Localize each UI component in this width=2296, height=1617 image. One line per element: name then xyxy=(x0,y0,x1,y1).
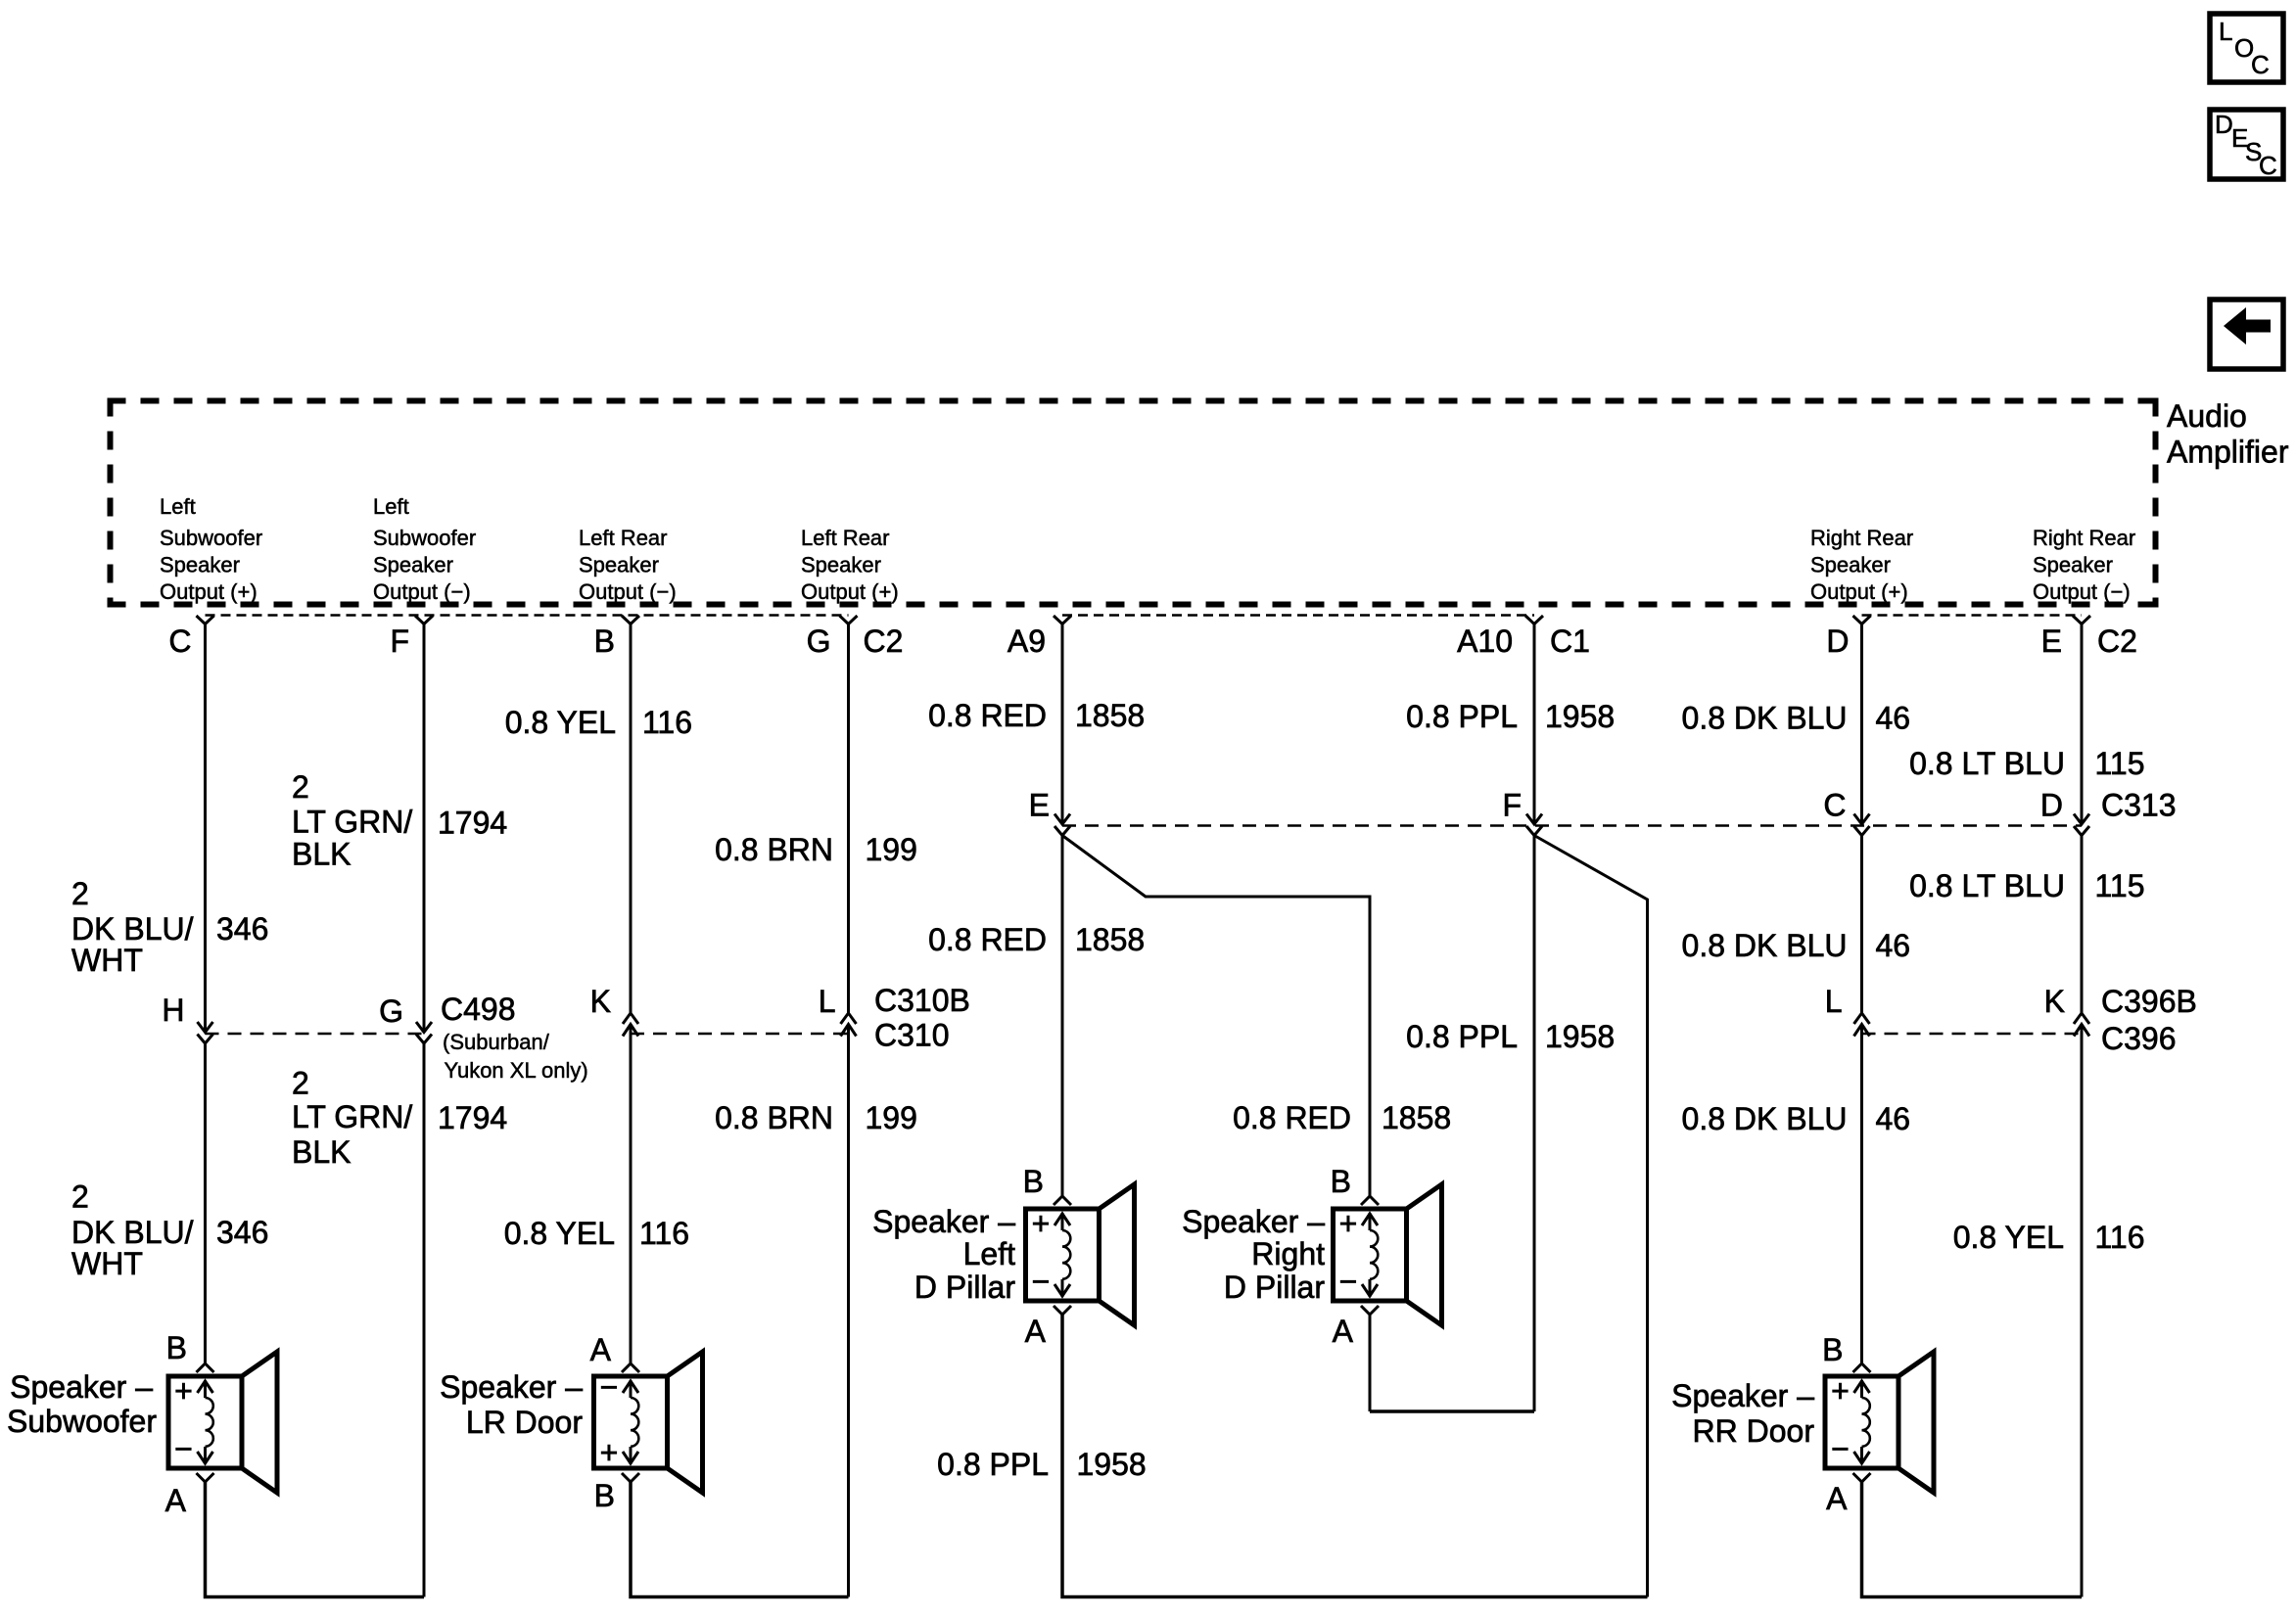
amp pin label: Right Rear Speaker Output (-) xyxy=(2033,526,2135,604)
wire: G down to bottom loop (2 LT GRN/BLK 1794) xyxy=(423,1043,426,1597)
connector C313 pin D crossing xyxy=(2040,788,2089,836)
amp pin label: Left Subwoofer Speaker Output (-) xyxy=(373,494,476,604)
svg-text:B: B xyxy=(1023,1164,1044,1199)
label Audio Amplifier xyxy=(2167,398,2289,470)
wire label 0.8 DK BLU 46 (upper) xyxy=(1682,701,1911,736)
svg-text:LT GRN/: LT GRN/ xyxy=(292,805,412,840)
wire label 0.8 BRN 199 (upper) xyxy=(715,832,917,867)
svg-text:B: B xyxy=(594,1478,615,1513)
svg-text:Speaker –: Speaker – xyxy=(10,1369,153,1405)
svg-text:LT GRN/: LT GRN/ xyxy=(292,1099,412,1134)
svg-text:199: 199 xyxy=(866,832,917,867)
svg-text:0.8 YEL: 0.8 YEL xyxy=(504,1216,615,1251)
svg-text:Left: Left xyxy=(160,494,196,519)
svg-text:G: G xyxy=(807,624,831,659)
svg-text:Speaker –: Speaker – xyxy=(872,1204,1015,1239)
svg-text:WHT: WHT xyxy=(71,943,143,978)
svg-text:A9: A9 xyxy=(1007,624,1046,659)
svg-text:DK BLU/: DK BLU/ xyxy=(71,911,194,947)
wire: L to RR door speaker B (0.8 DK BLU 46) xyxy=(1860,1025,1863,1364)
svg-text:Output (−): Output (−) xyxy=(2033,579,2131,604)
svg-text:C1: C1 xyxy=(1550,624,1590,659)
in-line connector C498 dashed line xyxy=(206,1033,425,1036)
svg-text:2: 2 xyxy=(292,769,309,805)
svg-text:199: 199 xyxy=(866,1100,917,1135)
amp pin A9 terminal fork xyxy=(1007,616,1071,659)
connector designator C310B / C310 xyxy=(874,983,970,1053)
wire label 0.8 YEL 116 (right lower) xyxy=(1953,1220,2145,1255)
wire label 0.8 YEL 116 (lower) xyxy=(504,1216,689,1251)
svg-text:Right: Right xyxy=(1251,1236,1325,1271)
svg-text:C310: C310 xyxy=(874,1018,950,1053)
wire: LR door speaker B down and across to amp G circuit xyxy=(631,1482,849,1597)
svg-text:+: + xyxy=(1339,1206,1358,1241)
svg-text:F: F xyxy=(1502,788,1522,823)
svg-text:B: B xyxy=(1331,1164,1351,1199)
speaker: LR Door xyxy=(440,1332,702,1513)
svg-text:E: E xyxy=(2041,624,2062,659)
wire: splice branch F diagonal to vertical runner (0.8 PPL 1958) xyxy=(1534,836,1648,1597)
svg-text:Output (+): Output (+) xyxy=(801,579,899,604)
wire: splice branch E to right D-pillar speaker diagonal xyxy=(1062,836,1370,1197)
wire: L down to bottom loop (0.8 BRN 199) xyxy=(847,1025,850,1597)
svg-text:0.8 DK BLU: 0.8 DK BLU xyxy=(1682,701,1848,736)
svg-text:−: − xyxy=(600,1369,619,1405)
wire label 0.8 LT BLU 115 (below C313) xyxy=(1909,868,2144,903)
svg-text:0.8 DK BLU: 0.8 DK BLU xyxy=(1682,1101,1848,1136)
wire: amp G to L (0.8 BRN 199) xyxy=(847,624,850,1014)
svg-text:Left Rear: Left Rear xyxy=(579,526,668,550)
wire label 2 LT GRN/BLK 1794 (upper) xyxy=(292,769,507,872)
wire: amp A10 to F (0.8 PPL 1958) xyxy=(1533,624,1536,825)
in-line connector C396 dashed line xyxy=(1862,1033,2083,1036)
amp connector C2 strip (pins C,F,B,G) xyxy=(206,614,849,617)
wire label 0.8 RED 1858 (right D-pillar branch) xyxy=(1233,1100,1451,1135)
wire: E to left D-pillar speaker (0.8 RED 1858) xyxy=(1061,836,1064,1197)
svg-text:Left: Left xyxy=(373,494,409,519)
connector C313 pin C crossing xyxy=(1823,788,1869,836)
svg-text:C: C xyxy=(1823,788,1846,823)
connector C396 pin L crossing xyxy=(1825,984,1870,1037)
svg-text:C396: C396 xyxy=(2101,1021,2177,1056)
svg-text:C2: C2 xyxy=(2097,624,2137,659)
svg-text:1958: 1958 xyxy=(1077,1447,1147,1482)
svg-text:BLK: BLK xyxy=(292,1134,351,1170)
svg-text:−: − xyxy=(174,1431,193,1466)
svg-text:F: F xyxy=(390,624,409,659)
svg-text:0.8 PPL: 0.8 PPL xyxy=(1406,1019,1518,1054)
svg-text:D Pillar: D Pillar xyxy=(1224,1270,1325,1305)
wire label 0.8 PPL 1958 (upper) xyxy=(1406,699,1615,734)
svg-text:Speaker: Speaker xyxy=(2033,553,2113,577)
amp pin G terminal fork xyxy=(807,616,858,659)
wire label 2 DK BLU/WHT 346 (lower) xyxy=(71,1179,268,1282)
svg-text:A: A xyxy=(165,1483,187,1518)
svg-text:L: L xyxy=(819,984,836,1019)
svg-text:L: L xyxy=(1825,984,1843,1019)
svg-text:0.8 LT BLU: 0.8 LT BLU xyxy=(1909,868,2065,903)
amp pin label: Left Rear Speaker Output (+) xyxy=(801,526,899,604)
svg-text:+: + xyxy=(1032,1206,1051,1241)
svg-text:0.8 RED: 0.8 RED xyxy=(1233,1100,1351,1135)
wire: amp D to C (0.8 DK BLU 46) xyxy=(1860,624,1863,825)
wire: D to K on right rear (-) (0.8 LT BLU 115) xyxy=(2081,836,2084,1014)
svg-text:(Suburban/: (Suburban/ xyxy=(443,1030,550,1054)
svg-text:Speaker: Speaker xyxy=(1810,553,1891,577)
amp pin label: Right Rear Speaker Output (+) xyxy=(1810,526,1913,604)
amp pin F terminal fork xyxy=(390,616,433,659)
svg-text:−: − xyxy=(1339,1264,1358,1299)
svg-text:−: − xyxy=(1831,1431,1850,1466)
svg-text:1858: 1858 xyxy=(1382,1100,1451,1135)
wire: amp B to K (0.8 YEL 116) xyxy=(630,624,633,1014)
wire: left D-pillar speaker A down and across to PPL runner xyxy=(1062,1315,1648,1597)
svg-text:2: 2 xyxy=(71,876,89,911)
amp connector C1 strip (pins A9,A10) xyxy=(1062,614,1534,617)
svg-text:115: 115 xyxy=(2095,868,2145,903)
wire label 0.8 RED 1858 (below C313) xyxy=(928,922,1145,957)
wire: subwoofer speaker A down and across to amp F circuit xyxy=(206,1482,425,1597)
svg-text:D: D xyxy=(1826,624,1849,659)
svg-text:D: D xyxy=(2040,788,2063,823)
svg-text:D Pillar: D Pillar xyxy=(914,1270,1015,1305)
amp pin E terminal fork xyxy=(2041,616,2090,659)
svg-text:B: B xyxy=(166,1330,187,1365)
amp pin C terminal fork xyxy=(168,616,213,659)
amp pin D terminal fork xyxy=(1826,616,1870,659)
audio amplifier U1 dashed outline xyxy=(108,398,2159,608)
svg-text:BLK: BLK xyxy=(292,837,351,872)
svg-text:RR Door: RR Door xyxy=(1693,1413,1815,1449)
amp pin B terminal fork xyxy=(594,616,639,659)
svg-text:Output (+): Output (+) xyxy=(1810,579,1908,604)
svg-text:+: + xyxy=(600,1435,619,1470)
svg-text:Left Rear: Left Rear xyxy=(801,526,890,550)
svg-text:0.8 PPL: 0.8 PPL xyxy=(937,1447,1049,1482)
wire: amp E to D (0.8 LT BLU 115) xyxy=(2081,624,2084,825)
svg-text:1858: 1858 xyxy=(1075,698,1145,733)
svg-text:D: D xyxy=(2215,110,2233,139)
connector C310 pin L crossing xyxy=(819,984,857,1037)
svg-text:46: 46 xyxy=(1876,701,1911,736)
svg-text:1958: 1958 xyxy=(1545,699,1615,734)
wire: amp C to H (2 DK BLU/WHT 346) xyxy=(204,624,207,1033)
wire label 0.8 PPL 1958 (left D-pillar return) xyxy=(937,1447,1147,1482)
speaker: Subwoofer xyxy=(7,1330,277,1518)
svg-text:L: L xyxy=(2219,17,2232,46)
svg-text:Subwoofer: Subwoofer xyxy=(373,526,476,550)
wire: H to subwoofer speaker B (2 DK BLU/WHT 346) xyxy=(204,1043,207,1363)
wire: amp A9 to E (0.8 RED 1858) xyxy=(1061,624,1064,825)
svg-text:116: 116 xyxy=(642,705,692,740)
LOC reference box xyxy=(2210,14,2283,82)
connector C310 pin K crossing xyxy=(590,984,638,1037)
svg-text:1958: 1958 xyxy=(1545,1019,1615,1054)
svg-text:2: 2 xyxy=(292,1066,309,1101)
svg-text:C: C xyxy=(168,624,191,659)
svg-text:C2: C2 xyxy=(864,624,904,659)
svg-text:C310B: C310B xyxy=(874,983,970,1018)
speaker: Right D Pillar xyxy=(1182,1164,1441,1349)
svg-text:A: A xyxy=(1333,1314,1354,1349)
wire: RR door speaker A down and across to amp E circuit xyxy=(1862,1482,2083,1597)
wire label 0.8 BRN 199 (lower) xyxy=(715,1100,917,1135)
connector C498 pin G crossing xyxy=(379,993,432,1043)
svg-text:Speaker –: Speaker – xyxy=(1671,1378,1814,1413)
svg-text:LR Door: LR Door xyxy=(466,1405,584,1440)
svg-text:1794: 1794 xyxy=(438,806,507,841)
svg-text:2: 2 xyxy=(71,1179,89,1215)
in-line connector C313 dashed line xyxy=(1062,824,2082,827)
svg-text:0.8 YEL: 0.8 YEL xyxy=(1953,1220,2064,1255)
svg-text:1794: 1794 xyxy=(438,1100,507,1135)
svg-text:E: E xyxy=(1029,788,1050,823)
svg-text:116: 116 xyxy=(639,1216,689,1251)
wire: right D-pillar speaker A to F-wire elbow xyxy=(1369,1315,1372,1411)
svg-text:Left: Left xyxy=(963,1236,1015,1271)
svg-text:A: A xyxy=(1826,1481,1848,1516)
svg-text:B: B xyxy=(594,624,615,659)
svg-text:Amplifier: Amplifier xyxy=(2167,435,2289,470)
wire: F to A10 continuation down (0.8 PPL 1958) xyxy=(1533,836,1536,1412)
svg-text:Audio: Audio xyxy=(2167,398,2247,434)
back-arrow navigation box xyxy=(2210,300,2283,369)
svg-text:Output (+): Output (+) xyxy=(160,579,258,604)
svg-text:0.8 DK BLU: 0.8 DK BLU xyxy=(1682,928,1848,963)
DESC reference box xyxy=(2210,110,2283,180)
connector C313 pin E crossing xyxy=(1029,788,1070,836)
wire label 2 LT GRN/BLK 1794 (lower) xyxy=(292,1066,507,1171)
svg-text:K: K xyxy=(2044,984,2065,1019)
svg-text:Output (−): Output (−) xyxy=(579,579,677,604)
wire: K down to bottom loop (0.8 YEL 116) xyxy=(2081,1025,2084,1597)
wire label 0.8 RED 1858 (upper) xyxy=(928,698,1145,733)
svg-text:A: A xyxy=(590,1332,612,1367)
svg-text:116: 116 xyxy=(2095,1220,2145,1255)
svg-text:B: B xyxy=(1822,1332,1843,1367)
svg-text:46: 46 xyxy=(1876,1101,1911,1136)
wire label 0.8 PPL 1958 (below C313) xyxy=(1406,1019,1615,1054)
amp connector C2 strip (pins D,E) xyxy=(1862,614,2083,617)
svg-text:WHT: WHT xyxy=(71,1246,143,1281)
connector designator C498 (Suburban/Yukon XL only) xyxy=(441,992,588,1083)
svg-text:0.8 LT BLU: 0.8 LT BLU xyxy=(1909,746,2065,781)
svg-text:+: + xyxy=(1831,1373,1850,1409)
svg-text:346: 346 xyxy=(216,1215,268,1250)
svg-text:0.8 PPL: 0.8 PPL xyxy=(1406,699,1518,734)
connector C313 pin F crossing xyxy=(1502,788,1542,836)
svg-text:0.8 RED: 0.8 RED xyxy=(928,698,1047,733)
amp pin A10 terminal fork xyxy=(1457,616,1543,659)
svg-text:+: + xyxy=(174,1373,193,1409)
wire label 2 DK BLU/WHT 346 (upper) xyxy=(71,876,268,978)
speaker: RR Door xyxy=(1671,1332,1934,1516)
in-line connector C310 dashed line xyxy=(631,1033,849,1036)
connector designator C396B / C396 xyxy=(2101,984,2197,1056)
svg-text:−: − xyxy=(1032,1264,1051,1299)
speaker: Left D Pillar xyxy=(872,1164,1134,1349)
amp pin label: Left Rear Speaker Output (-) xyxy=(579,526,677,604)
svg-text:Subwoofer: Subwoofer xyxy=(7,1404,157,1439)
connector C396 pin K crossing xyxy=(2044,984,2089,1037)
wire: C to L on right rear (+) (0.8 DK BLU 46) xyxy=(1860,836,1863,1014)
wire label 0.8 LT BLU 115 (upper) xyxy=(1909,746,2144,781)
svg-text:Speaker: Speaker xyxy=(160,553,240,577)
svg-text:Right Rear: Right Rear xyxy=(2033,526,2135,550)
wire label 0.8 YEL 116 (upper) xyxy=(505,705,692,740)
svg-text:Right Rear: Right Rear xyxy=(1810,526,1913,550)
svg-text:K: K xyxy=(590,984,611,1019)
amp pin label: Left Subwoofer Speaker Output (+) xyxy=(160,494,262,604)
svg-text:Output (−): Output (−) xyxy=(373,579,471,604)
svg-text:0.8 RED: 0.8 RED xyxy=(928,922,1047,957)
svg-text:A10: A10 xyxy=(1457,624,1513,659)
svg-text:0.8 BRN: 0.8 BRN xyxy=(715,832,833,867)
wire: amp F to G (2 LT GRN/BLK 1794) xyxy=(423,624,426,1033)
connector C498 pin H crossing xyxy=(162,993,212,1043)
svg-text:Yukon XL only): Yukon XL only) xyxy=(445,1058,588,1083)
svg-text:Speaker: Speaker xyxy=(801,553,881,577)
svg-text:Speaker: Speaker xyxy=(579,553,659,577)
svg-text:346: 346 xyxy=(216,911,268,947)
svg-text:0.8 YEL: 0.8 YEL xyxy=(505,705,616,740)
svg-text:C396B: C396B xyxy=(2101,984,2197,1019)
svg-text:G: G xyxy=(379,993,403,1029)
svg-text:C: C xyxy=(2251,50,2270,79)
wire label 0.8 DK BLU 46 (below C313) xyxy=(1682,928,1911,963)
svg-text:C: C xyxy=(2259,151,2277,180)
svg-text:Speaker –: Speaker – xyxy=(440,1369,583,1405)
svg-text:H: H xyxy=(162,993,184,1028)
svg-text:DK BLU/: DK BLU/ xyxy=(71,1215,194,1250)
svg-text:1858: 1858 xyxy=(1075,922,1145,957)
wire label 0.8 DK BLU 46 (lower) xyxy=(1682,1101,1911,1136)
svg-text:A: A xyxy=(1025,1314,1047,1349)
svg-text:Speaker: Speaker xyxy=(373,553,453,577)
wire: K to LR door speaker A (0.8 YEL 116) xyxy=(630,1025,633,1364)
svg-text:115: 115 xyxy=(2095,746,2145,781)
svg-text:46: 46 xyxy=(1876,928,1911,963)
svg-text:C313: C313 xyxy=(2101,788,2177,823)
svg-text:Subwoofer: Subwoofer xyxy=(160,526,262,550)
svg-text:C498: C498 xyxy=(441,992,516,1027)
svg-text:Speaker –: Speaker – xyxy=(1182,1204,1325,1239)
svg-text:0.8 BRN: 0.8 BRN xyxy=(715,1100,833,1135)
